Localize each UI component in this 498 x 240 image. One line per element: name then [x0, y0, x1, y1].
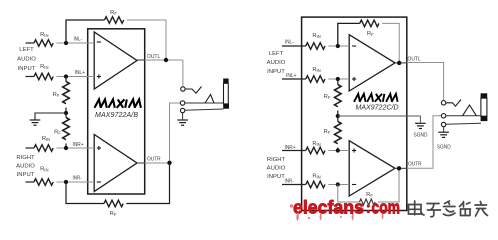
svg-text:INR-: INR- — [73, 176, 82, 182]
node mid bias — [336, 114, 340, 118]
svg-text:RIN: RIN — [312, 141, 320, 147]
svg-text:AUDIO: AUDIO — [17, 56, 36, 62]
char dian — [409, 201, 425, 215]
wire: RIN to op-amp — [328, 78, 349, 80]
watermark drips — [290, 204, 384, 221]
wire OUTR to jack ring — [407, 116, 442, 169]
headphone plug left — [223, 79, 229, 109]
resistor RIN (INR-) — [34, 179, 53, 186]
svg-text:INR-: INR- — [285, 179, 294, 185]
wire: RF to INR+ — [337, 148, 339, 151]
jack contact ring right — [441, 114, 445, 118]
wire: left audio input lead to RIN (INL+) — [26, 76, 35, 78]
IC box U2 MAX9722C/D — [302, 17, 407, 210]
svg-text:RF: RF — [54, 129, 61, 135]
node INR- — [64, 180, 68, 184]
resistor RF feedback top — [105, 17, 124, 24]
jack ring wire to plug — [185, 102, 224, 104]
node mid bias — [64, 111, 68, 115]
MAXIM logo right — [354, 94, 398, 102]
svg-text:SGND: SGND — [414, 132, 428, 138]
wire: mid node to SGND pin — [338, 116, 421, 123]
wire: INR- feedback down — [66, 182, 104, 204]
wire: OUTL from op-amp — [395, 62, 407, 64]
svg-text:INL-: INL- — [285, 39, 294, 45]
node INL+ — [64, 74, 68, 78]
svg-text:INPUT: INPUT — [267, 69, 285, 75]
wire: RIN to op-amp — [328, 45, 349, 47]
U1B plus input — [97, 146, 101, 150]
U2B plus input — [352, 148, 356, 152]
resistor RF bias lower — [335, 122, 342, 144]
wire: left audio input lead (INL-) — [282, 45, 306, 47]
wire: RIN to INL+ pin — [57, 76, 95, 78]
U1A minus input — [97, 41, 101, 43]
svg-text:INPUT: INPUT — [267, 174, 285, 180]
svg-text:OUTR: OUTR — [147, 157, 161, 163]
jack contact tip — [181, 87, 185, 91]
svg-text:INR+: INR+ — [285, 145, 296, 151]
svg-text:INL-: INL- — [74, 37, 83, 43]
node INL+ — [336, 77, 340, 81]
wire: right audio input lead (INR-) — [282, 184, 306, 186]
resistor RIN (INL+) — [306, 76, 325, 83]
svg-text:INR+: INR+ — [73, 142, 84, 148]
op-amp U2B — [349, 141, 395, 196]
ground SGND — [415, 123, 426, 128]
jack sleeve wire to plug — [446, 123, 481, 124]
svg-text:com: com — [372, 197, 401, 218]
node OUTR — [167, 161, 171, 165]
wire: jack ring to OUTR — [170, 103, 181, 161]
op-amp U1A — [94, 32, 137, 89]
MAXIM logo left — [95, 99, 141, 107]
jack contact sleeve — [180, 108, 184, 112]
wire: right audio input lead to RIN (INR+) — [26, 147, 35, 149]
svg-text:RIN: RIN — [312, 33, 320, 39]
svg-text:RF: RF — [367, 31, 374, 37]
resistor RIN (INL+) — [34, 73, 53, 80]
resistor RF bias upper — [63, 82, 70, 104]
U2A plus input — [352, 77, 356, 81]
ground SGND jack — [438, 132, 449, 137]
resistor RIN (INR-) — [306, 181, 325, 188]
char you — [475, 202, 488, 217]
svg-text:RF: RF — [324, 129, 331, 135]
ground jack left — [177, 120, 188, 125]
headphone plug right — [481, 93, 488, 121]
svg-text:RIN: RIN — [40, 166, 48, 172]
resistor RIN (INR+) — [306, 147, 325, 154]
jack ring wire to plug — [446, 115, 481, 117]
wire: left audio input lead (INL+) — [282, 78, 306, 80]
svg-text:RF: RF — [110, 211, 117, 217]
wire: RIN to INR- pin — [57, 181, 95, 183]
wire: INL+ to RF bias — [337, 79, 339, 85]
wire: RIN to op-amp — [328, 184, 349, 186]
char shao — [460, 202, 471, 216]
wire: INL- feedback up — [66, 20, 105, 43]
node INL- — [64, 41, 68, 45]
wire: RIN to INR+ pin — [57, 147, 95, 149]
jack ring contact peak — [463, 105, 477, 116]
resistor RF feedback bottom — [104, 200, 123, 207]
wire: sleeve to ground — [443, 127, 445, 132]
jack ring contact peak — [205, 95, 214, 104]
svg-text:RIN: RIN — [312, 174, 320, 180]
svg-text:SGND: SGND — [437, 145, 451, 151]
wire: OUTL to jack tip — [182, 60, 184, 87]
node INR+ — [336, 148, 340, 152]
wire: right audio input lead (INR+) — [282, 150, 306, 152]
svg-text:LEFT: LEFT — [269, 51, 284, 57]
svg-text:AUDIO: AUDIO — [267, 166, 286, 172]
svg-text:OUTR: OUTR — [408, 161, 422, 167]
svg-text:INPUT: INPUT — [17, 172, 35, 178]
watermark chinese chars — [409, 201, 488, 217]
wire: RF to mid node — [65, 108, 67, 114]
IC box U1 MAX9722A/B — [88, 29, 145, 194]
wire: INL+ to RF bias — [65, 77, 67, 82]
wire OUTR — [145, 162, 170, 164]
wire: mid node to RF bias lower — [65, 113, 67, 118]
resistor RF feedback bottom — [360, 199, 376, 205]
svg-text:OUTL: OUTL — [147, 54, 161, 60]
U2A minus input — [352, 45, 356, 47]
wire: INL- feedback up — [338, 23, 360, 46]
wire: RIN to INL- pin — [57, 42, 95, 44]
wire: mid node to ground — [35, 113, 66, 120]
jack tip switch arm — [185, 87, 201, 94]
wire: OUTL from op-amp — [137, 59, 145, 61]
char zi — [427, 204, 441, 217]
jack contact tip right — [441, 101, 445, 105]
U2B minus input — [352, 184, 356, 186]
wire: RF to INR+ — [65, 144, 67, 149]
svg-text:AUDIO: AUDIO — [267, 60, 286, 66]
wire: sleeve to ground — [182, 113, 184, 120]
wire: RF to OUTR node — [126, 163, 169, 204]
svg-text:RF: RF — [110, 10, 117, 16]
svg-text:RF: RF — [324, 94, 331, 100]
wire OUTL — [145, 59, 183, 61]
jack sleeve wire to plug — [185, 109, 224, 110]
svg-text:RIN: RIN — [312, 67, 320, 73]
svg-text:RIN: RIN — [40, 64, 48, 70]
op-amp U2A — [349, 35, 395, 91]
resistor RF feedback top — [360, 20, 379, 27]
node OUTL — [397, 61, 401, 65]
svg-text:INL+: INL+ — [286, 73, 297, 79]
resistor RF bias upper — [335, 85, 342, 107]
resistor RIN (INL-) — [34, 40, 53, 47]
wire: RF to OUTL node — [382, 23, 399, 63]
svg-text:OUTL: OUTL — [408, 56, 422, 62]
wire: RF to mid node — [337, 111, 339, 117]
wire: RF to OUTR node — [378, 168, 399, 202]
wire OUTL to jack — [407, 63, 444, 101]
svg-text:RIN: RIN — [40, 32, 48, 38]
ground — [30, 120, 41, 125]
svg-text:AUDIO: AUDIO — [16, 164, 35, 170]
wire: INR- feedback down — [338, 185, 360, 203]
U1A plus input — [97, 74, 101, 78]
svg-text:RIGHT: RIGHT — [16, 155, 35, 161]
node INL- — [336, 44, 340, 48]
wire: RIN to op-amp — [328, 150, 349, 152]
svg-text:RIGHT: RIGHT — [267, 157, 286, 163]
U1B minus input — [97, 181, 101, 183]
jack tip switch arm — [446, 100, 461, 107]
resistor RIN (INL-) — [306, 43, 325, 50]
wire: OUTR from op-amp — [137, 162, 145, 164]
char fa — [444, 201, 456, 216]
wire: OUTR from op-amp — [395, 167, 407, 169]
jack contact sleeve right — [441, 122, 445, 126]
wire: left audio input lead to RIN (INL-) — [26, 42, 35, 44]
op-amp U1B — [94, 135, 137, 192]
svg-text:LEFT: LEFT — [19, 47, 34, 53]
wire: mid node to RF bias lower — [337, 116, 339, 122]
svg-text:INPUT: INPUT — [18, 66, 36, 72]
resistor RF bias lower — [63, 118, 70, 140]
node OUTL — [164, 58, 168, 62]
svg-text:INL+: INL+ — [75, 70, 86, 76]
svg-text:RF: RF — [53, 92, 60, 98]
node INR- — [336, 182, 340, 186]
wire: RF to OUTL node — [127, 20, 166, 60]
svg-text:MAX9722A/B: MAX9722A/B — [95, 112, 138, 119]
resistor RIN (INR+) — [34, 145, 53, 152]
jack contact ring — [180, 101, 184, 105]
svg-text:RIN: RIN — [42, 136, 50, 142]
node INR+ — [64, 146, 68, 150]
svg-text:MAX9722C/D: MAX9722C/D — [356, 104, 399, 111]
wire: right audio input lead to RIN (INR-) — [26, 181, 35, 183]
node OUTR — [397, 166, 401, 170]
